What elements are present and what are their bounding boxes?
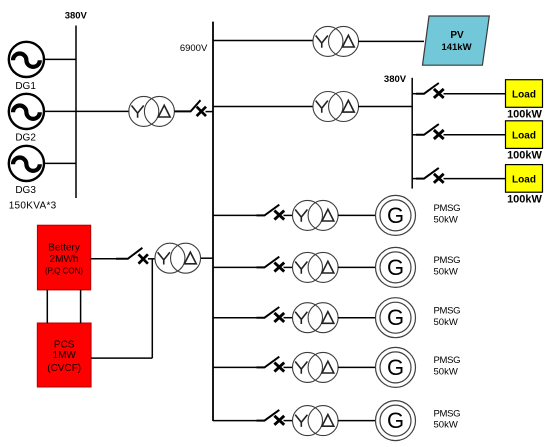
svg-text:141kW: 141kW xyxy=(441,42,471,53)
svg-text:DG1: DG1 xyxy=(15,81,36,92)
svg-text:2MWh: 2MWh xyxy=(50,254,79,265)
svg-text:50kW: 50kW xyxy=(434,367,458,378)
svg-text:(P,Q CON): (P,Q CON) xyxy=(45,267,83,276)
svg-text:1MW: 1MW xyxy=(53,350,77,361)
svg-text:PMSG: PMSG xyxy=(434,255,461,266)
svg-text:50kW: 50kW xyxy=(434,420,458,431)
svg-text:150KVA*3: 150KVA*3 xyxy=(9,200,57,211)
svg-text:100kW: 100kW xyxy=(507,193,542,205)
svg-text:PV: PV xyxy=(450,30,464,41)
svg-text:100kW: 100kW xyxy=(507,109,542,121)
svg-text:Load: Load xyxy=(512,90,536,101)
svg-text:PMSG: PMSG xyxy=(434,408,461,419)
svg-text:50kW: 50kW xyxy=(434,267,458,278)
svg-text:DG3: DG3 xyxy=(15,185,36,196)
svg-text:DG2: DG2 xyxy=(15,133,36,144)
svg-text:Bettery: Bettery xyxy=(48,242,80,253)
svg-text:380V: 380V xyxy=(384,74,407,85)
svg-text:PCS: PCS xyxy=(54,339,75,350)
svg-text:PMSG: PMSG xyxy=(434,355,461,366)
svg-text:50kW: 50kW xyxy=(434,317,458,328)
svg-text:100kW: 100kW xyxy=(507,150,542,162)
svg-text:(CVCF): (CVCF) xyxy=(47,363,81,374)
svg-text:380V: 380V xyxy=(65,11,88,22)
svg-text:PMSG: PMSG xyxy=(434,306,461,317)
svg-text:Load: Load xyxy=(512,131,536,142)
svg-text:50kW: 50kW xyxy=(434,215,458,226)
svg-text:PMSG: PMSG xyxy=(434,203,461,214)
svg-text:6900V: 6900V xyxy=(180,43,208,54)
svg-text:Load: Load xyxy=(512,174,536,185)
